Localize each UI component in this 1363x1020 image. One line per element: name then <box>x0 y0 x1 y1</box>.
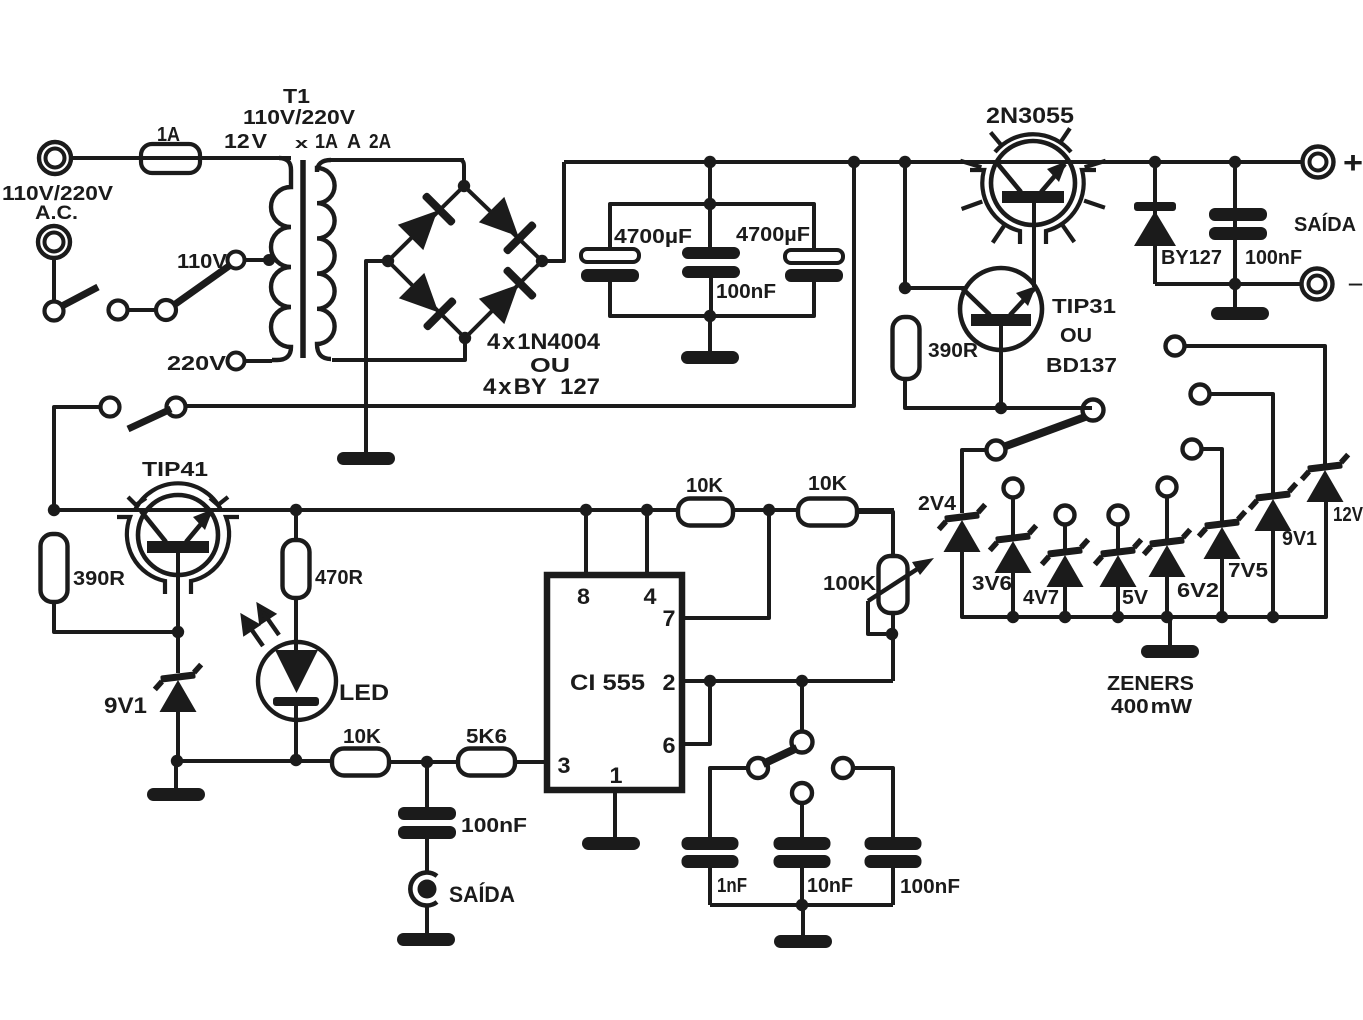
svg-text:110V/220V: 110V/220V <box>243 106 355 129</box>
transistor Q3 TIP41 body <box>138 495 218 575</box>
on/off switch arm (open) <box>62 287 98 306</box>
wire rail corner to pot <box>857 512 893 556</box>
svg-text:+: + <box>1343 146 1363 180</box>
label OU <box>530 354 570 377</box>
pin 3 label <box>558 753 571 778</box>
svg-text:100nF: 100nF <box>461 814 527 837</box>
wire R2 bottom to selector <box>905 379 1092 408</box>
wire c1 to 2V4 <box>962 450 986 513</box>
wire bridge top-left arm <box>388 186 464 261</box>
wire J1 to fuse <box>71 156 143 160</box>
switch S2 arm (open) <box>128 409 171 429</box>
zener Z1 2V4 <box>937 505 988 552</box>
node rail/390R branch <box>899 156 911 168</box>
contact c8 (12V) <box>1166 337 1185 356</box>
svg-text:100K: 100K <box>823 572 876 595</box>
wire 110V contact to winding tap <box>244 258 273 262</box>
svg-text:2V4: 2V4 <box>918 492 957 515</box>
wire pin 7 <box>682 510 769 618</box>
transistor Q1 heat-sink arcs <box>970 134 1096 244</box>
diode D4 (bottom-right arm) <box>477 265 538 326</box>
LED D6 lead top <box>294 598 298 650</box>
AC input terminal J1 (phase) <box>39 142 71 174</box>
node bridge bottom <box>459 332 471 344</box>
svg-text:A.C.: A.C. <box>35 202 78 224</box>
capacitor C1 4700uF bottom plate <box>581 269 639 282</box>
transistor Q1 2N3055 body <box>991 141 1075 225</box>
label 100nF (C5) <box>461 814 527 837</box>
svg-text:2A: 2A <box>369 130 391 153</box>
wire pin 4 <box>645 510 649 575</box>
contact t1 (1nF) <box>748 758 768 778</box>
contact c2 (3V6) <box>1004 479 1023 498</box>
wire c4 to 5V <box>1116 525 1120 549</box>
wire bridge bottom-left arm <box>388 261 465 338</box>
label + <box>1343 146 1363 180</box>
wire pin 1 <box>613 790 617 837</box>
svg-text:390R: 390R <box>928 339 978 362</box>
svg-text:7: 7 <box>663 606 676 631</box>
wire pin2 to pivot <box>800 681 804 731</box>
ground (bridge negative) <box>337 452 395 465</box>
svg-text:TIP31: TIP31 <box>1052 295 1116 318</box>
wire c3 to 4V7 <box>1063 525 1067 549</box>
wire c6 to 7V5 <box>1202 449 1222 521</box>
wire Q1 base down <box>1032 203 1036 287</box>
svg-text:A: A <box>347 130 361 153</box>
node pin2/timing <box>796 675 808 687</box>
zener Z8 12V <box>1300 455 1351 502</box>
label CI 555 <box>570 670 645 695</box>
pin 2 label <box>663 670 676 695</box>
pin 4 label <box>644 584 658 609</box>
wire R6 to pin3 <box>515 760 547 764</box>
wire filter top bus <box>610 204 814 250</box>
svg-text:2: 2 <box>663 670 676 695</box>
capacitor C2 100nF plates <box>682 247 740 278</box>
node bus 5V <box>1112 611 1124 623</box>
node Q2 emitter-lead junction <box>995 402 1007 414</box>
output jack SAIDA <box>410 873 437 906</box>
pin 6 label <box>663 733 676 758</box>
contact c1 (2V4) <box>987 441 1006 460</box>
label 1nF <box>717 874 747 897</box>
wire 100nF top lead <box>708 204 712 249</box>
capacitor C5 100nF <box>398 762 456 839</box>
svg-text:8: 8 <box>577 584 590 609</box>
label T1 ratings line2 <box>224 130 391 153</box>
LED arrows <box>243 606 279 646</box>
ground (output) <box>1211 307 1269 320</box>
node bridge left <box>382 255 394 267</box>
switch S2 right contact <box>167 398 186 417</box>
resistor R6 5K6 <box>458 749 515 776</box>
node rail/pin8 <box>580 504 592 516</box>
diode D2 (top-right arm) <box>477 195 538 256</box>
pot R9 arrow <box>868 558 934 601</box>
wire 220V contact to winding <box>244 359 272 363</box>
transistor Q2 base bar <box>971 314 1031 326</box>
label 110V <box>177 250 227 273</box>
transformer T1 core <box>300 160 306 358</box>
node 470R top <box>290 504 302 516</box>
svg-text:220V: 220V <box>167 352 226 375</box>
switch contact A <box>109 301 128 320</box>
node Q2 base node <box>899 282 911 294</box>
capacitor C8 100nF <box>865 837 922 905</box>
transistor Q2 TIP31 body <box>960 268 1042 350</box>
svg-text:10K: 10K <box>686 474 723 497</box>
output terminal - <box>1302 269 1333 300</box>
svg-text:390R: 390R <box>73 567 125 590</box>
node pin2/pin6 <box>704 675 716 687</box>
wire C5 to output jack <box>425 839 429 874</box>
svg-text:4V7: 4V7 <box>1023 586 1059 609</box>
pin 7 label <box>663 606 676 631</box>
wire 9V1 anode <box>1271 529 1275 617</box>
node rail/100nF <box>1229 156 1241 168</box>
label 5K6 <box>466 725 507 748</box>
transistor Q2 collector lead <box>962 288 990 315</box>
resistor R4 470R <box>283 510 310 598</box>
label 110V/220V A.C. <box>2 182 113 224</box>
node rail/pin4 <box>641 504 653 516</box>
contact t3 (100nF) <box>833 758 853 778</box>
svg-text:9V1: 9V1 <box>1282 527 1317 550</box>
label 3V6 <box>972 572 1012 595</box>
wire secondary bottom to bridge bottom node <box>332 338 465 360</box>
wire bridge top-right arm <box>464 186 542 261</box>
svg-text:10K: 10K <box>808 472 847 495</box>
wire 390R branch down <box>903 162 907 287</box>
LED D6 body <box>258 642 336 720</box>
zener Z7 9V1 <box>1248 484 1299 531</box>
label 100K <box>823 572 876 595</box>
label 12V <box>1333 503 1363 526</box>
wire t3 to C8 <box>853 768 893 837</box>
wire pin 2 <box>682 679 893 683</box>
transistor Q3 base bar <box>147 541 209 553</box>
svg-text:100nF: 100nF <box>900 875 960 898</box>
svg-text:5V: 5V <box>1122 586 1148 609</box>
label TIP41 <box>142 458 208 481</box>
svg-text:OU: OU <box>1060 324 1092 347</box>
svg-text:4 x 1N4004: 4 x 1N4004 <box>487 329 601 354</box>
label 220V <box>167 352 226 375</box>
node TIP41 base <box>172 626 184 638</box>
ground (timing caps) <box>774 905 832 948</box>
rotary switch pivot <box>1083 400 1104 421</box>
potentiometer R9 100K <box>879 556 908 613</box>
ground (filter) <box>681 316 739 364</box>
node pot/pin2 <box>886 628 898 640</box>
label 10nF <box>807 874 853 897</box>
contact t2 (10nF) <box>792 783 812 803</box>
label 470R <box>315 566 363 589</box>
transistor Q1 collector lead <box>997 163 1021 192</box>
switch S2 left contact <box>101 398 120 417</box>
wire secondary top lead <box>330 160 464 186</box>
220V tap contact <box>228 353 245 370</box>
wire zener anode bus <box>962 500 1326 617</box>
label 4700uF (C3) <box>736 223 810 246</box>
ground (jack) <box>397 933 455 946</box>
contact c5 (6V2) <box>1158 478 1177 497</box>
node LED bottom <box>290 754 302 766</box>
wire t2 to C7 <box>800 803 804 837</box>
wire pot bottom <box>891 613 895 681</box>
svg-text:6V2: 6V2 <box>1177 579 1219 602</box>
output terminal + <box>1303 147 1334 178</box>
wire S2 to TIP41 node <box>54 407 100 510</box>
wire t1 to C6 <box>710 768 748 837</box>
ground (zener bus) <box>1141 617 1199 658</box>
svg-text:470R: 470R <box>315 566 363 589</box>
label 6V2 <box>1177 579 1219 602</box>
LED D6 lead bottom <box>294 706 298 760</box>
label 2N3055 <box>986 103 1074 128</box>
wire rail to filter bus <box>708 162 712 204</box>
wire c8 to 12V <box>1185 346 1325 464</box>
svg-text:10nF: 10nF <box>807 874 853 897</box>
svg-text:TIP41: TIP41 <box>142 458 208 481</box>
wire 3V6 anode <box>1011 571 1015 617</box>
110V tap contact <box>228 252 245 269</box>
contact c4 (5V) <box>1109 506 1128 525</box>
label 100nF (C4) <box>1245 246 1302 269</box>
wire timing cap bus <box>710 903 893 907</box>
svg-text:3V6: 3V6 <box>972 572 1012 595</box>
node TIP41 collector feed <box>48 504 60 516</box>
label - <box>1348 273 1363 295</box>
transistor Q1 emitter lead <box>1041 161 1067 192</box>
svg-text:BY127: BY127 <box>1161 246 1222 269</box>
LED D6 triangle <box>275 650 318 693</box>
svg-text:12 V: 12 V <box>224 130 267 153</box>
node R5/C5 <box>421 756 433 768</box>
contact c3 (4V7) <box>1056 506 1075 525</box>
wire base node to Q2 <box>905 286 965 290</box>
capacitor C3 4700uF bottom plate <box>785 269 843 282</box>
label SAIDA (jack) <box>449 882 515 907</box>
label 4700uF (C1) <box>614 225 692 248</box>
contact c7 (9V1) <box>1191 385 1210 404</box>
pin 1 label <box>610 763 623 788</box>
zener Z5 6V2 <box>1142 530 1193 577</box>
node bus 4V7 <box>1059 611 1071 623</box>
svg-text:T1: T1 <box>283 85 310 108</box>
capacitor C1 4700uF top plate <box>581 249 639 262</box>
svg-text:4700µF: 4700µF <box>614 225 692 248</box>
wire R3 bottom to base node <box>54 602 178 632</box>
zener Z3 4V7 <box>1040 540 1091 587</box>
label 10K (R8) <box>808 472 847 495</box>
node rail/BY127 <box>1149 156 1161 168</box>
transistor Q3 heat-sink arcs <box>117 483 239 594</box>
wire TIP41 base lead <box>176 553 180 632</box>
node filter bottom <box>704 310 716 322</box>
label 100nF (C2) <box>716 280 776 303</box>
diode D1 (left-top arm) <box>396 191 457 252</box>
zener Z2 3V6 <box>988 526 1039 573</box>
svg-text:CI 555: CI 555 <box>570 670 645 695</box>
svg-text:100nF: 100nF <box>716 280 776 303</box>
svg-text:–: – <box>1348 273 1363 295</box>
svg-text:9V1: 9V1 <box>104 693 147 718</box>
svg-text:7V5: 7V5 <box>1228 559 1268 582</box>
zener Z9 9V1 <box>153 632 204 712</box>
resistor R5 10K <box>332 749 389 776</box>
transistor Q1 rays <box>960 128 1105 242</box>
svg-text:5K6: 5K6 <box>466 725 507 748</box>
label LED <box>339 680 389 705</box>
svg-text:LED: LED <box>339 680 389 705</box>
label 5V <box>1122 586 1148 609</box>
wire contact A to B <box>127 308 157 312</box>
capacitor C3 4700uF top plate <box>785 250 843 263</box>
wire pin 6 <box>682 681 710 744</box>
label 1A <box>157 123 180 146</box>
cap selector arm <box>763 748 797 764</box>
zener Z6 7V5 <box>1197 512 1248 559</box>
label 9V1 (Z9) <box>104 693 147 718</box>
node filter top <box>704 198 716 210</box>
svg-text:2N3055: 2N3055 <box>986 103 1074 128</box>
ground (9V1) <box>147 761 205 801</box>
transistor Q3 emitter lead <box>186 509 213 542</box>
node minus/100nF <box>1229 278 1241 290</box>
label SAIDA (output) <box>1294 213 1356 236</box>
svg-text:4 x BY 127: 4 x BY 127 <box>483 374 600 399</box>
voltage selector pivot B <box>156 300 176 320</box>
svg-text:4700µF: 4700µF <box>736 223 810 246</box>
transformer T1 primary winding <box>271 158 291 360</box>
wire unregulated rail down-left <box>186 162 854 406</box>
wire bridge bottom-right arm <box>465 261 542 338</box>
label T1 <box>283 85 310 108</box>
wire J2 down to switch <box>52 258 56 302</box>
wire R5 to node <box>389 760 458 764</box>
fuse F1 1A <box>135 144 291 173</box>
svg-text:12V: 12V <box>1333 503 1363 526</box>
label 10K (R5) <box>343 725 381 748</box>
wire 7V5 anode <box>1220 557 1224 617</box>
capacitor C7 10nF <box>774 837 831 905</box>
svg-text:10K: 10K <box>343 725 381 748</box>
resistor R7 10K <box>678 499 733 526</box>
node bus 9V1 <box>1267 611 1279 623</box>
pin 8 label <box>577 584 590 609</box>
svg-text:1A: 1A <box>315 130 338 153</box>
label 7V5 <box>1228 559 1268 582</box>
label 4 x BY 127 <box>483 374 600 399</box>
wire 100nF bottom lead <box>709 278 713 316</box>
wire filter bottom bus <box>610 282 814 316</box>
node rail/pin7 <box>763 504 775 516</box>
resistor R2 390R <box>893 317 920 379</box>
svg-text:1A: 1A <box>157 123 180 146</box>
transistor Q3 collector lead <box>141 511 166 542</box>
svg-text:1: 1 <box>610 763 623 788</box>
wire jack to ground <box>425 905 429 933</box>
svg-text:1nF: 1nF <box>717 874 747 897</box>
node bus 3V6 <box>1007 611 1019 623</box>
wire 4V7 anode <box>1063 585 1067 617</box>
selector arm to 110V tap <box>174 266 229 305</box>
resistor R8 10K <box>798 499 857 526</box>
diode D5 BY127 <box>1134 162 1176 284</box>
label ZENERS 400mW <box>1107 672 1194 718</box>
node rail/downfeed <box>848 156 860 168</box>
svg-text:ZENERS: ZENERS <box>1107 672 1194 695</box>
svg-text:6: 6 <box>663 733 676 758</box>
wire pin 8 <box>584 510 588 575</box>
node primary tap <box>263 254 275 266</box>
wire Q2 lead down <box>999 326 1003 408</box>
cap selector pivot <box>792 732 813 753</box>
capacitor C6 1nF <box>682 837 739 905</box>
svg-text:100nF: 100nF <box>1245 246 1302 269</box>
svg-text:3: 3 <box>558 753 571 778</box>
contact c6 (7V5) <box>1183 440 1202 459</box>
wire c7 to 9V1 <box>1210 394 1273 493</box>
ground (pin1) <box>582 837 640 850</box>
wire 6V2 anode <box>1165 575 1169 617</box>
wire 5V anode <box>1116 585 1120 617</box>
wire bridge right node to top rail <box>542 162 564 261</box>
zener Z4 5V <box>1093 540 1144 587</box>
svg-text:BD137: BD137 <box>1046 354 1117 377</box>
rotary switch arm <box>1006 417 1085 446</box>
svg-text:4: 4 <box>644 584 658 609</box>
label 4 x 1N4004 <box>487 329 601 354</box>
label T1 ratings line1 <box>243 106 355 129</box>
wire output minus <box>1155 282 1300 286</box>
IC U1 CI555 body <box>547 575 682 790</box>
node bridge top <box>458 180 470 192</box>
node Z9/ground <box>171 755 183 767</box>
label 100nF (C8) <box>900 875 960 898</box>
wire top positive rail <box>564 160 1303 164</box>
label 390R (R3) <box>73 567 125 590</box>
wire c5 to 6V2 <box>1165 497 1169 539</box>
wire c2 to 3V6 <box>1011 498 1015 535</box>
transistor Q1 base bar <box>1002 191 1064 203</box>
LED D6 cathode bar <box>273 697 319 706</box>
label 2V4 <box>918 492 957 515</box>
node bus/ground <box>796 899 808 911</box>
label 390R (R2) <box>928 339 978 362</box>
wire 100nF to ground <box>1233 284 1237 307</box>
capacitor C4 100nF <box>1209 162 1267 284</box>
svg-text:SAÍDA: SAÍDA <box>449 882 515 907</box>
transistor Q2 emitter lead <box>1010 286 1036 315</box>
transformer T1 secondary winding <box>317 160 335 359</box>
label 10K (R7) <box>686 474 723 497</box>
pot R9 wiper link <box>868 601 886 634</box>
on/off switch pivot <box>45 302 64 321</box>
AC input terminal J2 (neutral) <box>38 226 70 258</box>
wire bridge left node to ground <box>366 261 388 452</box>
svg-text:110V: 110V <box>177 250 227 273</box>
node bridge right <box>536 255 548 267</box>
wire Z9 anode down <box>176 712 180 761</box>
resistor R3 390R <box>41 534 68 602</box>
node rail/filter <box>704 156 716 168</box>
svg-text:400 mW: 400 mW <box>1111 695 1193 718</box>
svg-text:SAÍDA: SAÍDA <box>1294 213 1356 236</box>
label TIP31 OU BD137 <box>1046 295 1117 377</box>
